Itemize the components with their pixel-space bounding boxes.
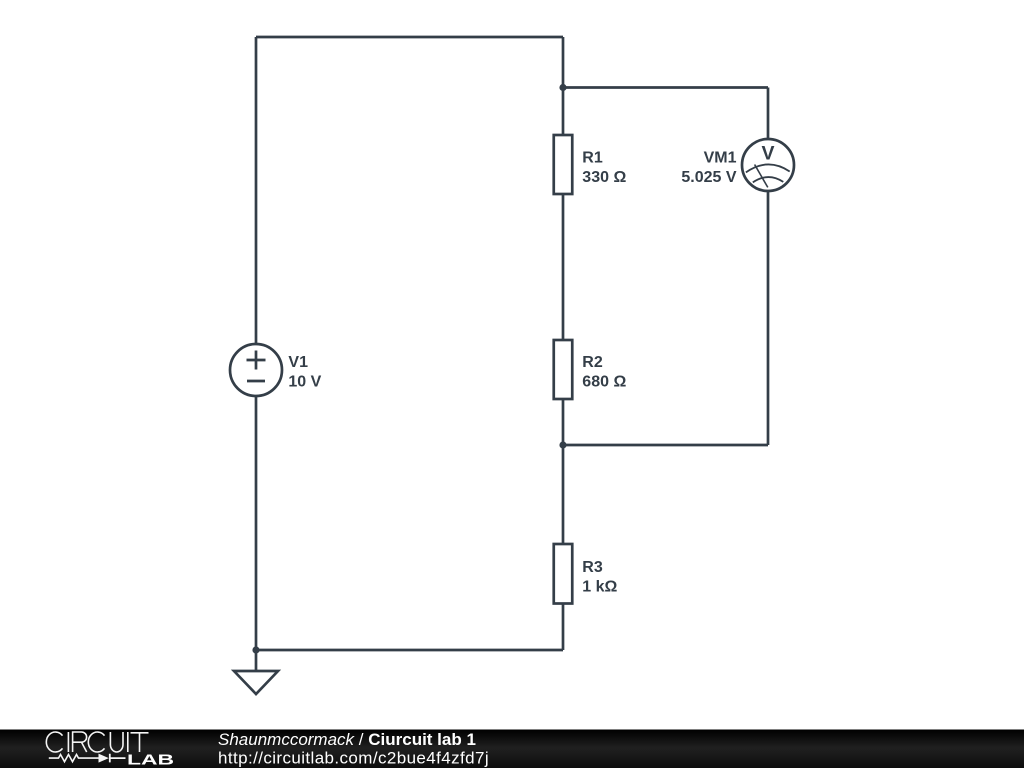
svg-text:680 Ω: 680 Ω: [582, 374, 626, 391]
svg-text:http://circuitlab.com/c2bue4f4: http://circuitlab.com/c2bue4f4zfd7j: [218, 749, 489, 768]
svg-text:R2: R2: [582, 354, 603, 371]
svg-text:330 Ω: 330 Ω: [582, 169, 626, 186]
svg-text:V1: V1: [288, 354, 308, 371]
svg-text:V: V: [761, 143, 774, 165]
svg-text:5.025 V: 5.025 V: [681, 169, 736, 186]
svg-text:Shaunmccormack / Ciurcuit lab: Shaunmccormack / Ciurcuit lab 1: [218, 730, 476, 749]
svg-text:R1: R1: [582, 150, 603, 167]
svg-text:VM1: VM1: [704, 150, 737, 167]
svg-text:1 kΩ: 1 kΩ: [582, 578, 617, 595]
svg-text:LAB: LAB: [127, 752, 174, 768]
svg-text:R3: R3: [582, 559, 603, 576]
svg-text:10 V: 10 V: [288, 374, 321, 391]
